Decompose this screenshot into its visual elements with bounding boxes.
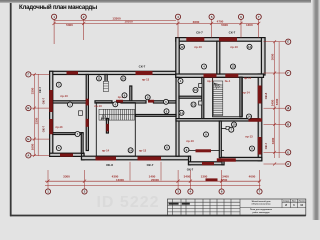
svg-text:А: А (27, 153, 29, 157)
svg-text:6700: 6700 (221, 178, 228, 182)
svg-text:3300: 3300 (30, 87, 34, 94)
svg-text:14: 14 (180, 111, 183, 115)
svg-text:пр-13: пр-13 (139, 149, 147, 153)
svg-text:Б: Б (27, 137, 29, 141)
svg-text:пр-13: пр-13 (245, 134, 253, 138)
svg-text:И: И (285, 204, 287, 207)
svg-text:пр-1: пр-1 (207, 79, 213, 83)
svg-text:Б: Б (287, 150, 289, 154)
svg-text:СК-7: СК-7 (139, 64, 146, 68)
svg-text:3300: 3300 (34, 117, 38, 124)
svg-text:14: 14 (129, 148, 132, 152)
svg-text:пр-13: пр-13 (230, 45, 238, 49)
svg-text:Жилой жилой дом: Жилой жилой дом (252, 200, 271, 203)
svg-text:5300: 5300 (275, 98, 279, 105)
svg-text:ОК-7: ОК-7 (187, 167, 194, 171)
svg-text:ID 5222: ID 5222 (96, 194, 159, 211)
svg-text:СК-7: СК-7 (38, 86, 42, 93)
svg-text:13: 13 (248, 45, 251, 49)
svg-text:3300: 3300 (63, 175, 70, 179)
svg-text:5300: 5300 (221, 23, 228, 27)
svg-text:Листов: Листов (299, 201, 305, 203)
svg-text:В: В (27, 106, 29, 110)
svg-text:14: 14 (248, 115, 251, 119)
svg-text:пр-13: пр-13 (142, 78, 150, 82)
svg-text:Стадия: Стадия (283, 201, 289, 203)
svg-text:Д: Д (287, 106, 289, 110)
svg-text:5300: 5300 (66, 23, 73, 27)
svg-text:3600: 3600 (193, 20, 200, 24)
svg-text:ОК-8: ОК-8 (106, 163, 113, 167)
svg-text:ОК-8: ОК-8 (264, 92, 268, 99)
svg-text:Лист: Лист (292, 201, 296, 203)
svg-text:13300: 13300 (112, 17, 121, 21)
svg-text:4000: 4000 (249, 175, 256, 179)
svg-text:13: 13 (232, 65, 235, 69)
svg-text:1600: 1600 (30, 143, 34, 150)
svg-text:10: 10 (233, 123, 236, 127)
svg-text:пр-13: пр-13 (186, 139, 194, 143)
svg-text:пр-14: пр-14 (102, 149, 110, 153)
svg-text:пр-13: пр-13 (94, 104, 102, 108)
svg-text:1300: 1300 (246, 23, 253, 27)
svg-text:2400: 2400 (271, 99, 275, 106)
svg-text:3000: 3000 (271, 53, 275, 60)
svg-text:12: 12 (181, 45, 184, 49)
svg-text:ОК-7: ОК-7 (42, 125, 46, 132)
svg-text:3400: 3400 (271, 137, 275, 144)
svg-text:13300: 13300 (116, 178, 124, 182)
svg-text:пр-14: пр-14 (242, 91, 250, 95)
svg-text:ОК-7: ОК-7 (42, 97, 46, 104)
svg-text:пр-14: пр-14 (244, 76, 252, 80)
svg-text:пр-13: пр-13 (60, 94, 68, 98)
svg-text:пр-13: пр-13 (194, 45, 202, 49)
svg-text:10100: 10100 (124, 20, 133, 24)
svg-text:13: 13 (192, 103, 195, 107)
svg-text:10: 10 (194, 88, 197, 92)
svg-text:г.Южно-Сахалинск: г.Южно-Сахалинск (251, 204, 271, 206)
svg-text:А: А (287, 162, 289, 166)
svg-text:В: В (287, 122, 289, 126)
svg-text:пр-13: пр-13 (56, 125, 63, 129)
svg-text:10: 10 (122, 76, 125, 80)
svg-text:СК-7: СК-7 (196, 31, 203, 35)
svg-text:План для подрамных: План для подрамных (250, 209, 273, 211)
svg-text:работ мансарды: работ мансарды (252, 211, 269, 214)
svg-text:Е: Е (287, 40, 289, 44)
svg-text:3400: 3400 (184, 175, 191, 179)
svg-text:Кладочный план мансарды: Кладочный план мансарды (19, 4, 97, 11)
svg-text:№-1: №-1 (225, 79, 231, 83)
svg-text:СК-7: СК-7 (229, 31, 236, 35)
svg-text:1300: 1300 (201, 175, 208, 179)
svg-text:20000: 20000 (151, 178, 159, 182)
svg-text:ОК-7: ОК-7 (147, 163, 154, 167)
svg-text:ОК-7: ОК-7 (264, 142, 268, 149)
